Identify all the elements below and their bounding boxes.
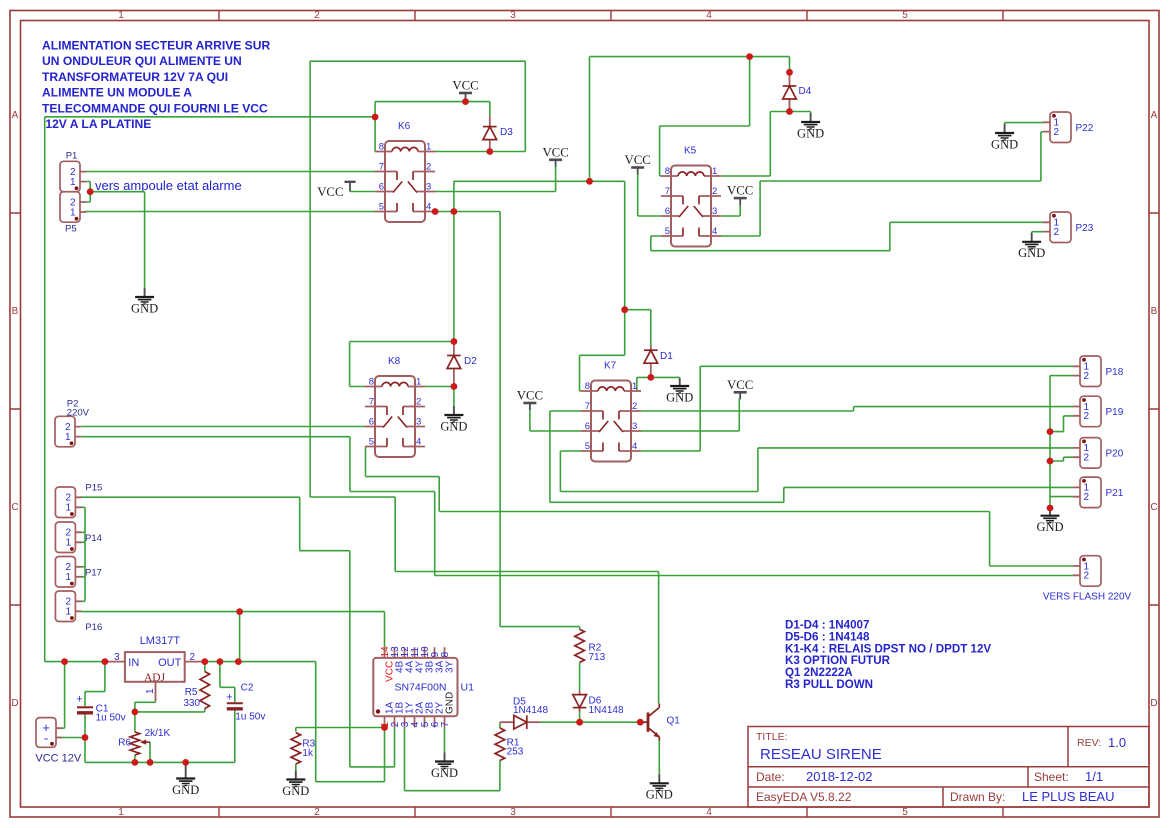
wire K8 pin1 to D2 anode and GND — [425, 387, 454, 407]
P1 pin 1 marker dot — [75, 186, 79, 190]
svg-text:3Y: 3Y — [445, 660, 456, 673]
wire VCC rail from top-left to LM317 IN — [45, 117, 375, 662]
svg-text:C2: C2 — [241, 683, 254, 694]
svg-text:2: 2 — [190, 652, 196, 663]
svg-text:GND: GND — [797, 126, 824, 140]
junction C1 bottom / VCC12V minus — [82, 734, 89, 741]
diode D1 leads — [650, 346, 652, 378]
svg-text:A: A — [1151, 110, 1158, 121]
svg-text:P19: P19 — [1106, 407, 1124, 418]
svg-text:UN ONDULEUR QUI ALIMENTE UN: UN ONDULEUR QUI ALIMENTE UN — [42, 54, 242, 68]
junction IN rail / C1 — [102, 658, 109, 665]
svg-text:C: C — [11, 502, 18, 513]
svg-text:1k: 1k — [302, 748, 314, 759]
wire K6 pin4 to R2 top — [500, 212, 579, 630]
wire P18 pin2 to GND rail — [1050, 376, 1073, 508]
connector VCC 12V input — [36, 718, 56, 748]
capacitor C1 — [77, 706, 93, 708]
svg-text:7: 7 — [369, 397, 374, 408]
svg-text:1: 1 — [65, 503, 71, 514]
diode D6 — [573, 695, 587, 708]
junction ADJ node / R6 — [132, 709, 139, 716]
svg-text:K7: K7 — [604, 361, 617, 372]
connector P22 — [1050, 112, 1071, 143]
svg-text:P16: P16 — [85, 622, 102, 633]
svg-text:A: A — [12, 110, 19, 121]
wire K6 pin4 node — [435, 57, 625, 342]
P20 pin 1 marker dot — [1082, 440, 1086, 444]
svg-text:ADJ: ADJ — [144, 672, 166, 684]
wire D4 cathode top junction — [789, 99, 791, 112]
svg-text:VCC: VCC — [727, 378, 753, 392]
resistor R6 potentiometer — [130, 732, 140, 755]
svg-text:4: 4 — [712, 226, 717, 237]
VCC flag for K7 pin6 — [523, 402, 536, 405]
svg-text:8: 8 — [379, 142, 384, 153]
svg-text:+: + — [76, 694, 82, 706]
svg-text:SN74F00N: SN74F00N — [395, 682, 447, 694]
svg-text:REV:: REV: — [1077, 737, 1101, 749]
P2 pin 1 marker dot — [70, 441, 74, 445]
svg-text:1u 50v: 1u 50v — [96, 713, 126, 724]
resistor R1 — [495, 728, 505, 761]
wire R6 top — [134, 712, 136, 732]
P17 pin 1 marker dot — [70, 582, 74, 586]
junction OUT rail / P16 branch — [235, 658, 242, 665]
relay K6 — [375, 141, 435, 222]
svg-text:3: 3 — [510, 10, 516, 21]
diode D4 — [783, 86, 797, 99]
junction OUT rail / C2 — [217, 658, 224, 665]
junction GND rail / P20 pin2 — [1047, 458, 1054, 465]
voltage regulator LM317T body — [125, 652, 185, 682]
svg-text:1: 1 — [145, 688, 156, 694]
svg-text:Q1: Q1 — [667, 716, 681, 727]
wire C1 bottom — [84, 714, 86, 738]
svg-text:2: 2 — [314, 10, 320, 21]
junction K6 pin8 / VCC rail — [372, 114, 379, 121]
svg-text:D4: D4 — [799, 86, 812, 97]
connector P18 — [1080, 356, 1101, 387]
svg-text:B: B — [12, 306, 19, 317]
connector P19 — [1080, 396, 1101, 427]
junction K6 pin4 lead — [432, 208, 439, 215]
svg-text:VCC: VCC — [452, 79, 478, 93]
junction R6 wiper / ground rail — [147, 759, 154, 766]
svg-text:P1: P1 — [66, 151, 78, 162]
wire P16 pin1 to U1 pin14 and LM317 OUT — [81, 612, 384, 662]
wire U1 pin7 to GND — [444, 728, 446, 753]
svg-text:3: 3 — [416, 417, 421, 428]
svg-text:2: 2 — [1084, 411, 1090, 422]
diode D3 — [483, 127, 497, 140]
svg-text:C: C — [1150, 502, 1157, 513]
svg-text:GND: GND — [440, 419, 467, 433]
connector P20 — [1080, 438, 1101, 469]
wire Q1 emitter to GND — [658, 740, 660, 775]
VCC flag for K6 pin3 — [549, 159, 562, 162]
svg-text:4: 4 — [426, 202, 431, 213]
P5 pin 1 marker dot — [75, 217, 79, 221]
P23 pin 1 marker dot — [1052, 214, 1056, 218]
svg-text:5: 5 — [902, 807, 908, 818]
VCC flag for K7 pin3 — [734, 391, 747, 394]
junction D4 cathode — [786, 69, 793, 76]
junction GND rail / P19 pin2 — [1047, 428, 1054, 435]
diode D5 — [500, 721, 540, 723]
wire K6 contact node to Q1 collector — [310, 497, 658, 704]
svg-text:2k/1K: 2k/1K — [145, 728, 171, 739]
wire K7 pin2 to P19 pin1 — [641, 407, 1073, 411]
wire C2 top elbow to OUT rail — [220, 662, 235, 703]
wire D2 top to K8 pin8 — [350, 342, 454, 387]
wire K6 pin3 to VCC flag — [435, 167, 556, 192]
IC U1 SN74F00N body — [373, 658, 457, 716]
diode D1 — [644, 350, 658, 363]
svg-text:-: - — [44, 731, 48, 746]
wire D4 anode to GND and K5 pin1 — [721, 112, 811, 177]
junction OUT rail / R5 — [201, 658, 208, 665]
svg-text:GND: GND — [666, 390, 693, 404]
svg-text:1: 1 — [712, 166, 717, 177]
svg-text:D3: D3 — [500, 127, 513, 138]
wire P22 pin1 to GND — [1005, 123, 1043, 124]
P18 pin 1 marker dot — [1082, 358, 1086, 362]
wire P1 pin1 / P5 pin2 junction to GND — [86, 182, 145, 289]
wire P19 pin2 jog to GND rail — [1050, 416, 1073, 432]
svg-text:K8: K8 — [388, 356, 401, 367]
wire P2 pin2 to K8 pin6 — [81, 426, 365, 428]
svg-text:6: 6 — [665, 206, 670, 217]
svg-text:P5: P5 — [65, 224, 77, 235]
wire top rail branch to K5 coil pin8 — [660, 57, 750, 176]
P16 pin 1 marker dot — [70, 616, 74, 620]
U1 pin1 marker dot — [376, 709, 380, 713]
svg-text:GND: GND — [431, 766, 458, 780]
svg-text:Date:: Date: — [756, 770, 785, 784]
svg-text:VCC: VCC — [517, 389, 543, 403]
connector P14 — [55, 522, 75, 553]
relay K8 — [365, 376, 425, 457]
svg-text:2: 2 — [1054, 227, 1060, 238]
junction K7 coil / D1 branch — [621, 306, 628, 313]
junction D2 cathode — [451, 338, 458, 345]
junction D2 anode / K8 pin1 — [451, 383, 458, 390]
connector P5 — [60, 192, 80, 223]
diode D4 leads — [789, 72, 791, 111]
svg-text:IN: IN — [128, 657, 139, 669]
svg-text:P23: P23 — [1076, 223, 1094, 234]
wire OUT rail down to U1 pin1 — [316, 662, 385, 782]
junction D3 anode / K6 pin1 — [486, 148, 493, 155]
diode D2 leads — [453, 342, 455, 387]
wire C1 top elbow to IN rail — [85, 662, 105, 707]
svg-text:ALIMENTATION SECTEUR ARRIVE SU: ALIMENTATION SECTEUR ARRIVE SUR — [42, 39, 270, 53]
wire K7 pin4 to P18 pin1 — [641, 366, 1073, 451]
svg-text:LM317T: LM317T — [140, 635, 181, 647]
svg-text:K6: K6 — [398, 121, 411, 132]
P14 pin 1 marker dot — [70, 547, 74, 551]
svg-text:ALIMENTE UN MODULE A: ALIMENTE UN MODULE A — [42, 86, 192, 100]
wire LM317 OUT rail — [205, 661, 316, 663]
svg-text:2: 2 — [712, 186, 717, 197]
resistor R5 — [200, 672, 210, 709]
svg-text:2: 2 — [1084, 571, 1090, 582]
ground at P23 — [1022, 233, 1041, 249]
svg-text:1: 1 — [426, 142, 431, 153]
ground at P22 — [995, 124, 1014, 140]
svg-text:1: 1 — [70, 177, 76, 188]
wire P1 pin2 to K6 pin7 — [85, 171, 375, 173]
diode D3 lead — [489, 116, 491, 152]
diode D6 leads — [579, 691, 581, 713]
svg-text:6: 6 — [379, 182, 384, 193]
wire top horizontal to D4 — [590, 57, 790, 73]
svg-text:D2: D2 — [464, 356, 477, 367]
wire P20 pin2 jog to GND rail — [1050, 457, 1073, 461]
svg-text:P18: P18 — [1106, 367, 1124, 378]
svg-text:1u 50v: 1u 50v — [235, 712, 265, 723]
wire R5 bottom to ADJ node — [204, 709, 206, 712]
wire P15 pin2 staircase to U1 pin2 — [81, 497, 394, 767]
svg-text:2: 2 — [416, 397, 421, 408]
svg-text:5: 5 — [585, 441, 590, 452]
ground at D2 — [444, 406, 463, 422]
ground at U1 pin7 — [435, 753, 454, 769]
connector P23 — [1050, 212, 1071, 243]
connector P21 — [1080, 477, 1101, 508]
svg-text:8: 8 — [585, 381, 590, 392]
VCC flag for K5 pin6 — [631, 166, 644, 169]
junction K6 node / top rail — [586, 178, 593, 185]
svg-text:4: 4 — [706, 10, 712, 21]
wire R5 top — [204, 662, 206, 672]
wire R6 bottom to ground rail — [134, 755, 136, 762]
wire VCC flag to K5 pin6 — [638, 174, 661, 216]
svg-text:P20: P20 — [1106, 449, 1124, 460]
svg-text:GND: GND — [131, 301, 158, 315]
svg-text:TELECOMMANDE QUI FOURNI LE VCC: TELECOMMANDE QUI FOURNI LE VCC — [42, 101, 268, 115]
junction P1 pin1 / P5 pin2 / GND — [87, 188, 94, 195]
connector P16 — [55, 591, 75, 622]
wire K7 pin5 to P20 pin1 — [560, 448, 1073, 492]
resistor R3 — [291, 733, 301, 764]
svg-text:TITLE:: TITLE: — [756, 731, 788, 743]
junction Q1 base — [637, 719, 644, 726]
wire U1 pin3 to R1 bottom — [405, 728, 500, 791]
svg-text:1: 1 — [416, 377, 421, 388]
wire R3 top to U1 pin1 — [296, 728, 385, 732]
VERS FLASH connector pin 1 marker dot — [1082, 558, 1086, 562]
ground at D1 — [670, 379, 689, 394]
P22 pin 1 marker dot — [1052, 114, 1056, 118]
svg-text:P14: P14 — [85, 533, 102, 544]
svg-text:220V: 220V — [67, 408, 90, 419]
svg-text:P22: P22 — [1076, 123, 1094, 134]
svg-text:5: 5 — [665, 226, 670, 237]
wire ground rail bottom — [85, 710, 235, 763]
wire K5 pin4 to P22 pin2 — [721, 132, 1043, 236]
wire R2 bottom to D6 — [579, 662, 581, 690]
svg-text:GND: GND — [282, 784, 309, 798]
svg-text:4: 4 — [706, 807, 712, 818]
svg-text:LE PLUS BEAU: LE PLUS BEAU — [1022, 789, 1115, 804]
svg-text:5: 5 — [379, 202, 384, 213]
wire K6 coil pin8 to VCC loop — [375, 102, 490, 152]
svg-text:VCC 12V: VCC 12V — [35, 753, 82, 765]
svg-text:D: D — [11, 698, 18, 709]
junction P16 pin1 / OUT rail — [236, 608, 243, 615]
junction GND rail bottom — [1047, 505, 1054, 512]
junction D6 anode / base wire — [576, 719, 583, 726]
svg-text:1: 1 — [65, 572, 71, 583]
svg-text:RESEAU SIRENE: RESEAU SIRENE — [760, 746, 882, 763]
svg-text:1: 1 — [65, 432, 71, 443]
wire R6 wiper to ground rail — [149, 742, 151, 762]
junction U1 pin1 / R3 wire — [381, 724, 388, 731]
svg-text:8: 8 — [665, 166, 670, 177]
svg-text:8: 8 — [440, 651, 451, 657]
svg-text:+: + — [226, 692, 232, 704]
svg-text:6: 6 — [369, 417, 374, 428]
ground below P1/P5 — [135, 288, 154, 304]
diode D2 — [447, 356, 461, 369]
wire VCC12V minus to ground rail — [56, 738, 85, 763]
wire VCC flag to K6 pin6 — [350, 191, 375, 193]
svg-text:1: 1 — [632, 381, 637, 392]
svg-text:R3 PULL DOWN: R3 PULL DOWN — [785, 678, 873, 691]
svg-text:1: 1 — [70, 207, 76, 218]
svg-text:3: 3 — [510, 807, 516, 818]
svg-text:VCC: VCC — [727, 184, 753, 198]
svg-text:2: 2 — [1054, 127, 1060, 138]
junction IN rail / VCC12V — [61, 658, 68, 665]
svg-text:1N4148: 1N4148 — [513, 705, 548, 716]
svg-text:TRANSFORMATEUR 12V 7A QUI: TRANSFORMATEUR 12V 7A QUI — [42, 70, 228, 84]
svg-text:2: 2 — [1084, 371, 1090, 382]
svg-text:VCC: VCC — [317, 185, 343, 199]
svg-text:12V A LA PLATINE: 12V A LA PLATINE — [42, 117, 151, 131]
svg-text:GND: GND — [646, 788, 673, 802]
svg-text:B: B — [1151, 306, 1158, 317]
svg-text:VERS FLASH 220V: VERS FLASH 220V — [1043, 592, 1132, 603]
svg-text:GND: GND — [991, 137, 1018, 151]
svg-text:5: 5 — [369, 437, 374, 448]
junction D4 anode — [786, 108, 793, 115]
svg-text:713: 713 — [589, 652, 606, 663]
wire R3 bottom to GND — [295, 764, 297, 771]
svg-text:R5: R5 — [185, 687, 198, 698]
connector P17 — [55, 557, 75, 588]
connector P2 — [55, 416, 75, 447]
wire VCC flag to K7 pin6 — [530, 410, 581, 432]
svg-text:1: 1 — [118, 10, 124, 21]
wire R1 top to D5 — [499, 722, 501, 728]
capacitor C2 — [227, 702, 243, 704]
VCC flag for K5 pin3 — [734, 197, 747, 200]
svg-text:P15: P15 — [85, 483, 102, 494]
wire P2 pin1 staircase to VERS FLASH pin2 — [81, 437, 1073, 576]
svg-text:VCC: VCC — [625, 153, 651, 167]
svg-text:1N4148: 1N4148 — [589, 705, 624, 716]
wire K7 pin3 to VCC flag — [641, 399, 739, 432]
svg-text:7: 7 — [379, 162, 384, 173]
junction top rail / K5 branch — [746, 53, 753, 60]
wire K7 pin7 to P21 pin1 — [550, 411, 1073, 502]
svg-text:4: 4 — [632, 441, 637, 452]
wire right vertical to K7 coil and D1 — [580, 181, 651, 391]
svg-text:D: D — [1150, 698, 1157, 709]
wire D6 anode junction — [579, 708, 581, 723]
svg-text:3: 3 — [426, 182, 431, 193]
svg-text:Sheet:: Sheet: — [1034, 770, 1069, 784]
P15 pin 1 marker dot — [70, 512, 74, 516]
svg-text:P17: P17 — [85, 568, 102, 579]
svg-text:GND: GND — [445, 692, 456, 714]
svg-text:5: 5 — [902, 10, 908, 21]
svg-text:6: 6 — [585, 421, 590, 432]
svg-text:1.0: 1.0 — [1108, 735, 1126, 750]
ground at Q1 emitter — [650, 775, 669, 791]
wire P15 P14 P17 P16 chain rail — [81, 507, 85, 601]
svg-text:330: 330 — [183, 698, 200, 709]
wire K5 pin3 to VCC flag — [721, 205, 740, 217]
P21 pin 1 marker dot — [1082, 479, 1086, 483]
relay K7 — [581, 381, 641, 462]
svg-text:K5: K5 — [684, 146, 697, 157]
transistor Q1 — [640, 704, 659, 741]
svg-text:2: 2 — [632, 401, 637, 412]
wire K5 pin5 to P23 pin1 — [651, 222, 1043, 250]
connector P15 — [55, 487, 75, 518]
wire K6 pin1 row to D3 and outer loop — [310, 61, 525, 497]
junction K6 pin4 node — [451, 208, 458, 215]
P19 pin 1 marker dot — [1082, 398, 1086, 402]
svg-text:2: 2 — [1084, 492, 1090, 503]
svg-text:P21: P21 — [1106, 488, 1124, 499]
svg-text:253: 253 — [507, 747, 524, 758]
svg-text:D1: D1 — [660, 351, 673, 362]
ground at P18-P21 rail — [1041, 508, 1060, 523]
wire P21 pin2 to GND rail — [1050, 496, 1073, 498]
svg-text:1: 1 — [65, 538, 71, 549]
ground at R3 — [286, 771, 305, 787]
svg-text:GND: GND — [1036, 520, 1063, 534]
R6 wiper arrow — [144, 741, 150, 743]
relay K5 — [661, 166, 721, 247]
resistor R2 — [575, 629, 585, 662]
junction VCC / D3 loop — [462, 98, 469, 105]
wire D1 anode to K7 pin1 and GND — [637, 377, 680, 391]
svg-text:3: 3 — [114, 652, 120, 663]
junction ground rail / GND — [182, 759, 189, 766]
svg-text:2: 2 — [314, 807, 320, 818]
svg-text:U1: U1 — [461, 682, 475, 694]
svg-text:GND: GND — [172, 783, 199, 797]
connector P1 — [60, 161, 80, 192]
svg-text:8: 8 — [369, 377, 374, 388]
svg-text:1: 1 — [118, 807, 124, 818]
VCC flag for K6 pin6 — [345, 181, 356, 183]
svg-text:Drawn By:: Drawn By: — [950, 790, 1005, 804]
connector VERS FLASH connector — [1080, 556, 1101, 587]
svg-text:2: 2 — [1084, 453, 1090, 464]
wire D5 cathode to D6 junction and Q1 base — [540, 721, 646, 723]
svg-text:3: 3 — [712, 206, 717, 217]
svg-text:VCC: VCC — [542, 145, 568, 159]
svg-text:1: 1 — [65, 607, 71, 618]
svg-text:1/1: 1/1 — [1085, 769, 1103, 784]
